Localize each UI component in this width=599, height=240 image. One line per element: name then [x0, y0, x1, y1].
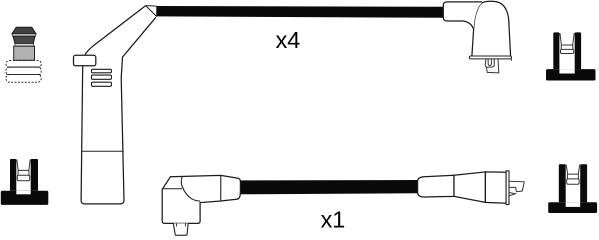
P2: right column [31, 159, 38, 191]
svg-text:x1: x1 [321, 207, 346, 233]
boot A: apex to cable top [146, 5, 157, 8]
boot B: terminal staple inner [488, 59, 491, 65]
ignition cable x1 (black lead, bottom) [240, 180, 419, 194]
boot C: nipple lip ticks [176, 223, 185, 226]
P1: insulator band [561, 49, 574, 53]
boot B: flange end tick [510, 59, 512, 61]
boot A: mid divider line [81, 150, 123, 152]
P3: insulator band [567, 179, 579, 184]
distributor terminal piece: ribbed base disc 2 (dashed) [6, 67, 41, 75]
ribbed base groove line 2 [7, 74, 41, 76]
P1: insulator taper lines [560, 33, 574, 50]
P3: insulator taper lines [566, 165, 580, 179]
ribbed base groove line 1 [7, 66, 40, 68]
distributor terminal piece: silver band 2 [15, 44, 34, 47]
pedestal P1 (top-right, black tower terminal): base [546, 69, 596, 80]
boot C: bottom nipple [173, 223, 188, 235]
plug D (bottom-right straight connector): sleeve [418, 175, 454, 197]
pedestal P2 (bottom-left): base [1, 191, 49, 205]
boot B: cable entry sleeve [443, 2, 482, 29]
P1: white notch in base [559, 69, 574, 73]
distributor terminal piece: dark mid block [13, 36, 35, 43]
plug D: terminal tab [509, 181, 524, 192]
svg-text:x4: x4 [276, 27, 301, 53]
plug D: terminal jaw top [509, 187, 516, 191]
boot B: flange [469, 56, 511, 59]
boot A: rib 1 [92, 69, 112, 73]
boot B (top-right elbow boot): dome [472, 1, 511, 56]
P3: left column [559, 164, 566, 202]
ignition cable x4 (black lead) [156, 6, 443, 18]
P1: left column [553, 32, 559, 69]
boot A: lower arm edge + body outline [81, 17, 156, 204]
P2: left column [10, 159, 16, 191]
plug D: end rim [506, 171, 509, 205]
boot B: terminal box [486, 59, 498, 73]
boot C: shoulder line [163, 188, 183, 190]
boot A (tall angled spark plug boot): upper arm edge [85, 6, 146, 55]
distributor terminal piece: silver band 1 [12, 34, 36, 36]
plug D: cylinder section [485, 172, 506, 203]
boot A: rib 3 [92, 82, 112, 86]
boot C: collar divider [220, 175, 222, 201]
boot C (bottom elbow boot): main outline [162, 175, 240, 223]
P1: right column [575, 32, 581, 69]
distributor terminal piece (top-left): cap top [12, 27, 36, 34]
plug D: terminal jaw wedge [509, 193, 515, 196]
P3: white notch in base [566, 202, 581, 207]
P2: white notch in base [16, 191, 30, 195]
distributor terminal piece: gray block [14, 46, 35, 60]
boot C: inner dome arc [181, 176, 200, 201]
pedestal P3 (bottom-right): base [548, 202, 597, 213]
distributor terminal piece: ribbed base disc 1 (dashed) [6, 61, 41, 68]
P2: insulator taper lines [17, 159, 30, 175]
distributor terminal piece: ribbed base disc 3 (dashed) [6, 75, 41, 83]
boot A: rib 2 [92, 75, 112, 79]
boot A: tip hypotenuse [146, 6, 157, 17]
boot B: terminal staple outer [485, 59, 494, 67]
P3: right column [580, 164, 587, 202]
plug D: cone section [454, 172, 485, 203]
boot A: top cap [74, 55, 96, 66]
P2: insulator band [17, 175, 29, 180]
